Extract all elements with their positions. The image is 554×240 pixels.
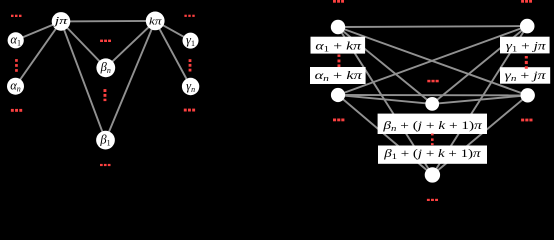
red vdots between α1 and αn	[15, 59, 18, 72]
wire γ1+jπ – β1+...	[432, 26, 527, 175]
red dots above α1 node	[333, 0, 344, 3]
red dots below β1	[100, 164, 111, 166]
node αn+kπ (circle)	[331, 88, 345, 102]
label box βn+(j+k+1)π	[378, 114, 487, 134]
wire α1+kπ – γn+jπ	[338, 27, 528, 95]
node jπ	[52, 12, 71, 31]
node γ1	[183, 33, 199, 49]
red dots above γ1 node	[521, 0, 532, 3]
label box β1+(j+k+1)π	[378, 146, 487, 164]
node βn (circle)	[425, 97, 439, 111]
red dots below αn	[11, 109, 22, 112]
red vdots between γ1 and γn	[189, 59, 192, 71]
label box αn+kπ	[310, 67, 366, 84]
svg-text:jπ: jπ	[52, 16, 69, 27]
red vdots between γ boxes	[525, 56, 528, 69]
red dots below γn	[184, 109, 195, 112]
wire jπ–αn	[16, 21, 62, 86]
wire γn+jπ – βn+...	[432, 95, 528, 104]
node α1	[8, 32, 24, 48]
node βn	[96, 58, 115, 77]
wire αn+kπ – β1+...	[338, 95, 432, 175]
svg-text:βn + (j + k + 1)π: βn + (j + k + 1)π	[382, 118, 483, 133]
node αn	[7, 78, 24, 95]
red vdots between β boxes	[431, 134, 434, 146]
node γn+jπ (circle)	[521, 88, 535, 102]
node β1	[96, 131, 115, 150]
svg-text:αn + kπ: αn + kπ	[315, 68, 364, 83]
red dots above γ1	[184, 15, 194, 17]
red dots below γn node	[521, 119, 532, 122]
red vdots between βn and β1	[104, 89, 107, 101]
red vdots between α boxes	[338, 55, 341, 68]
wire jπ–kπ	[61, 20, 155, 23]
label box γ1+jπ	[500, 37, 550, 54]
wire α1+kπ – βn+...	[338, 27, 432, 104]
svg-text:β1 + (j + k + 1)π: β1 + (j + k + 1)π	[383, 146, 482, 161]
red dots below αn node	[333, 119, 344, 122]
node β1 (circle)	[425, 167, 440, 182]
wire αn+kπ – βn+...	[338, 95, 432, 104]
wire α1+kπ – γ1+jπ	[338, 25, 527, 28]
wire kπ–γn	[155, 21, 190, 87]
node γ1+jπ (circle)	[520, 19, 535, 34]
wire kπ–β1	[106, 21, 156, 140]
label box γn+jπ	[500, 67, 550, 84]
red ellipsis marks, right graph	[333, 0, 533, 201]
wire kπ–γ1	[155, 21, 190, 41]
wire γn+jπ – β1+...	[432, 95, 527, 175]
wire αn+kπ – γ1+jπ	[338, 26, 527, 95]
red dots above α1	[11, 15, 22, 17]
red dots above βn node	[427, 80, 438, 83]
node kπ	[146, 12, 165, 31]
red ellipsis marks, left graph	[11, 15, 195, 166]
wire jπ–βn	[61, 21, 106, 67]
wire jπ–α1	[16, 21, 61, 40]
node γn	[182, 78, 199, 95]
red dots below β1 node	[427, 199, 438, 201]
label box α1+kπ	[311, 37, 366, 54]
wire α1+kπ – β1+...	[338, 27, 432, 175]
wire kπ–βn	[106, 21, 155, 68]
node α1+kπ (circle)	[331, 20, 345, 34]
svg-text:α1 + kπ: α1 + kπ	[315, 38, 362, 53]
red dots above βn	[100, 40, 111, 42]
svg-text:kπ: kπ	[149, 17, 162, 28]
wire jπ–β1	[61, 21, 106, 140]
wire γ1+jπ – βn+...	[432, 26, 527, 104]
wire αn+kπ – γn+jπ	[338, 94, 528, 96]
